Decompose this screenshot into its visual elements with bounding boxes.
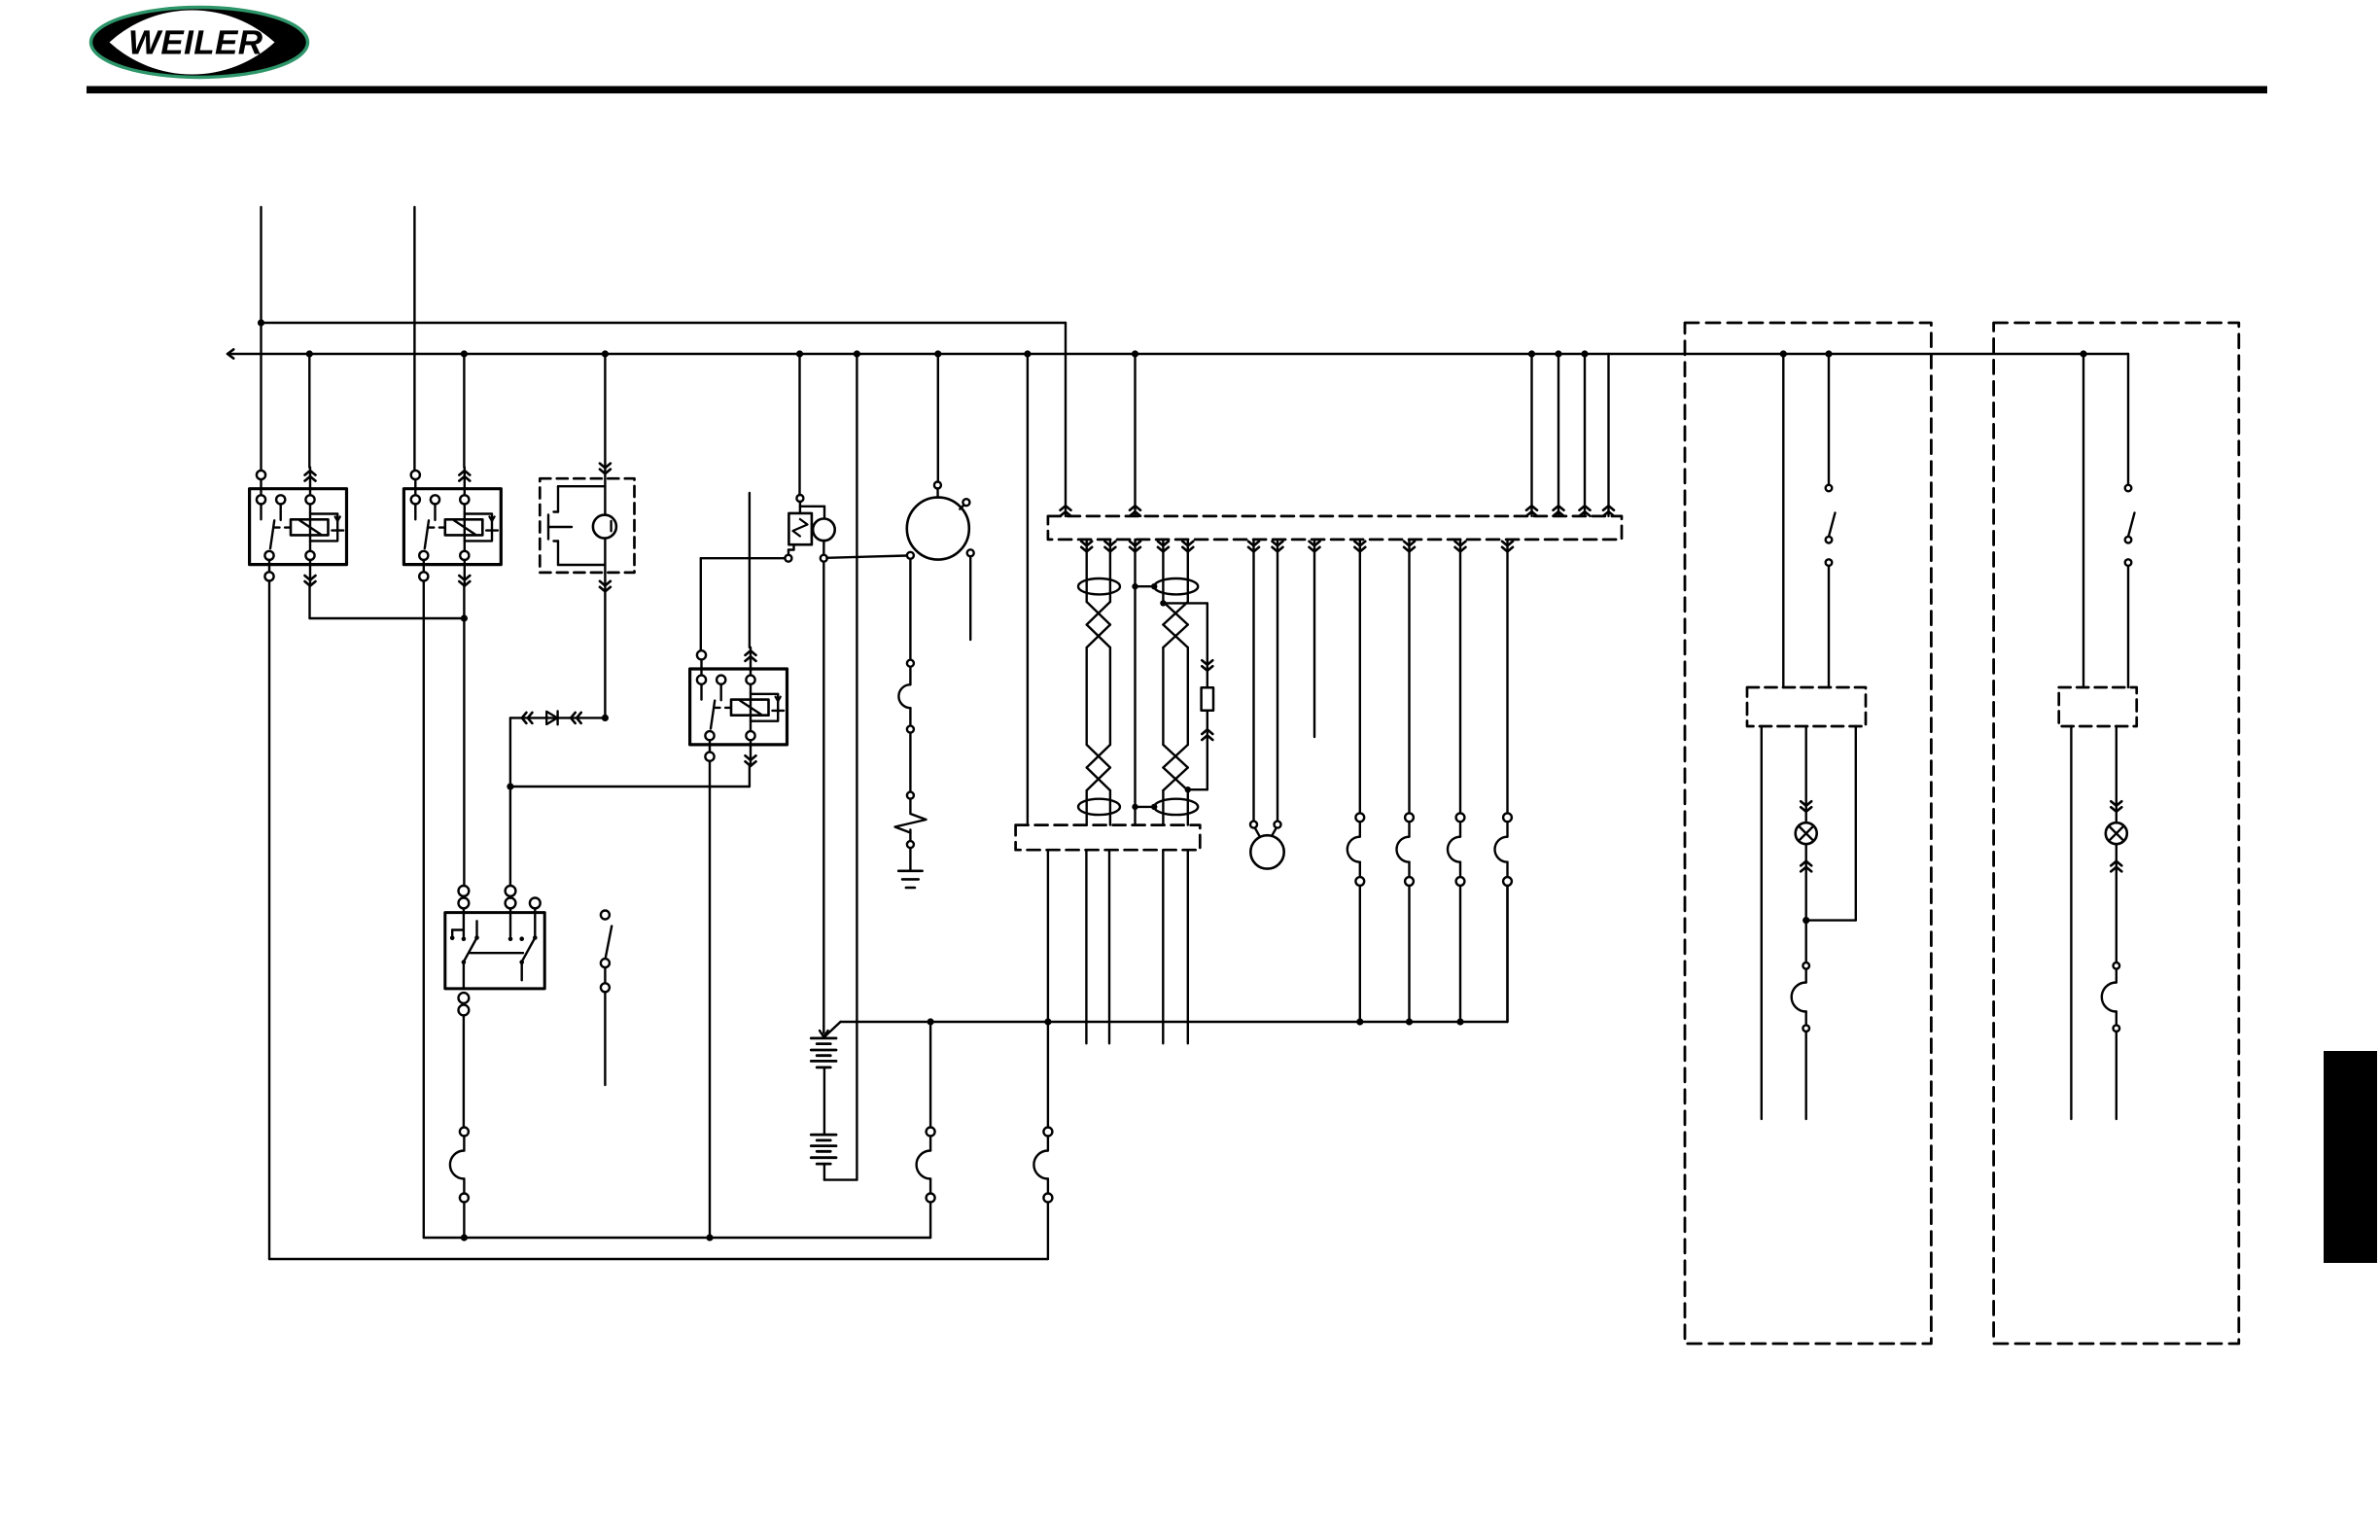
cab unit box 1 (dashed) bbox=[1685, 323, 1931, 1344]
spare wire bbox=[1310, 540, 1320, 737]
wire bus B to indicator unit bbox=[600, 354, 611, 478]
wire bus B to relay K1 coil bbox=[308, 354, 310, 468]
fuse F1 bbox=[1347, 813, 1364, 1022]
relay K2 bbox=[403, 468, 501, 586]
fuse F8 bbox=[898, 660, 913, 733]
junction diode branch bbox=[507, 783, 513, 789]
fuse F10 bbox=[1033, 850, 1052, 1202]
battery series link bbox=[823, 1067, 825, 1135]
wire relay K3 output bbox=[510, 766, 750, 787]
wire breaker to starter terminal bbox=[826, 556, 907, 558]
junction K1/K2 outputs bbox=[461, 614, 468, 621]
harness wire d bbox=[1182, 540, 1193, 602]
circuit breaker CB1 bbox=[895, 799, 927, 849]
wire relay K1 contact to bottom loop bbox=[268, 581, 270, 1260]
fuse F4 bbox=[1495, 813, 1512, 886]
wire relay K2 output to ignition switch bbox=[463, 586, 465, 886]
header rule bbox=[87, 87, 2267, 94]
bus A wire bbox=[262, 323, 1071, 516]
bus B wire bbox=[227, 349, 2128, 358]
stub wires under X2 bbox=[1086, 850, 1187, 1043]
relay K1 bbox=[250, 468, 347, 586]
screen wire bbox=[1130, 540, 1140, 825]
wire bus B to X1 pin 5 bbox=[1603, 354, 1614, 516]
junction lamp E1 return bbox=[1802, 917, 1809, 924]
wire bus B to X1 pin 2 bbox=[1526, 354, 1537, 516]
horn wire a bbox=[1248, 540, 1259, 822]
wire X4 left bbox=[2070, 726, 2072, 1119]
feed wire to relay K2 bbox=[413, 207, 415, 471]
wire indicator unit to diode node bbox=[600, 573, 611, 718]
battery G2 bbox=[811, 1135, 836, 1164]
starter motor M1 bbox=[907, 482, 974, 560]
wire bus B to X1 pin 3 bbox=[1554, 354, 1564, 516]
fuse F2 bbox=[1397, 813, 1414, 1022]
indicator lamp bbox=[593, 478, 616, 573]
wire F8 to breaker CB1 bbox=[907, 733, 914, 799]
wire bus B to circuit breaker bbox=[798, 354, 800, 495]
ground symbol bbox=[898, 848, 922, 888]
screen link bottom bbox=[1132, 804, 1157, 810]
wire relay K1 output bbox=[310, 586, 465, 618]
wire starter to breaker column bbox=[909, 559, 911, 659]
fuse F3 bbox=[1448, 813, 1464, 1022]
wire X1 to fuse F1 bbox=[1354, 540, 1365, 813]
fuse F7 bbox=[450, 1128, 469, 1203]
wire X3 right bbox=[1806, 726, 1856, 921]
wire bus B to X1 pin 4 bbox=[1580, 354, 1591, 516]
circuit breaker unit bbox=[785, 495, 834, 562]
feed wire to relay K1 bbox=[260, 207, 262, 471]
wire relay K3 contact down bbox=[709, 761, 711, 1238]
junction K3/loop bbox=[706, 1234, 713, 1241]
wire diode to ignition switch bbox=[509, 717, 511, 886]
wire X1 to fuse F2 bbox=[1404, 540, 1415, 813]
lamp E1 bbox=[1796, 726, 1817, 921]
battery wire from bus B bbox=[856, 354, 857, 1180]
cab unit box 2 (dashed) bbox=[1994, 323, 2239, 1344]
twisted pair W2 bbox=[1154, 578, 1198, 825]
junction diode to lamp wire bbox=[602, 715, 609, 721]
switch S3 bbox=[1826, 354, 1836, 687]
junctions on bus C bbox=[927, 1018, 1464, 1025]
relay K3 bbox=[690, 647, 787, 766]
wire bus B to X2 bbox=[1027, 354, 1029, 825]
junctions on bus B bbox=[306, 350, 2087, 357]
wire X3 left bbox=[1761, 726, 1763, 1119]
connector X3 (dashed) bbox=[1747, 687, 1866, 726]
harness wire a bbox=[1081, 540, 1092, 602]
wire ignition switch to fuse F7 bbox=[463, 1015, 465, 1127]
harness wire b bbox=[1104, 540, 1115, 602]
pressure switch contact bbox=[548, 486, 605, 565]
battery G1 bbox=[811, 1038, 836, 1067]
lamp E2 bbox=[2106, 726, 2127, 962]
diode D1 line bbox=[510, 712, 606, 725]
wire starter aux terminal bbox=[969, 556, 971, 640]
junction bus A bbox=[258, 319, 264, 326]
connector X1 (dashed) bbox=[1048, 516, 1622, 540]
wire flasher to relay K3 pin1 bbox=[701, 558, 785, 650]
fuse F6 bbox=[2102, 962, 2119, 1119]
resistor R1 branch bbox=[1160, 600, 1213, 792]
ground link wire bbox=[424, 1237, 930, 1239]
wire breaker to battery positive bbox=[820, 562, 828, 1037]
battery negative wire bbox=[824, 1164, 857, 1180]
indicator unit box (dashed) bbox=[540, 478, 634, 573]
fuse F9 bbox=[917, 1022, 935, 1238]
battery positive diagonal bbox=[824, 1022, 840, 1036]
connector X4 (dashed) bbox=[2059, 687, 2137, 726]
wire bus B to relay K2 coil bbox=[463, 354, 465, 468]
wire bus B to X1 pin bbox=[1130, 354, 1140, 516]
wire relay K2 contact down bbox=[423, 581, 425, 1239]
wire bus B to starter motor bbox=[937, 354, 939, 482]
ignition switch S1 bbox=[445, 886, 544, 1015]
wire fuse F7 down bbox=[463, 1203, 465, 1239]
wire relay K3 coil top bbox=[749, 493, 751, 647]
fuse F5 bbox=[1792, 921, 1809, 1119]
wire bus B to connector X3 bbox=[1782, 354, 1784, 687]
harness wire c bbox=[1158, 540, 1169, 602]
bus C wire bbox=[841, 886, 1508, 1022]
page tab bbox=[2324, 1051, 2377, 1263]
horn H1 bbox=[1250, 822, 1284, 869]
wire X1 to fuse F4 bbox=[1502, 540, 1513, 813]
WEILER logo bbox=[91, 8, 308, 78]
wire bottom loop bbox=[269, 1203, 1048, 1260]
horn wire b bbox=[1273, 540, 1283, 822]
wire bus B to connector X4 bbox=[2082, 354, 2084, 687]
connector X2 (dashed) bbox=[1016, 825, 1201, 851]
twisted pair W1 bbox=[1078, 578, 1120, 825]
junction F7/loop bbox=[461, 1234, 468, 1241]
wire X1 to fuse F3 bbox=[1455, 540, 1466, 813]
screen link top bbox=[1132, 583, 1157, 589]
fuse F4 lower wire bbox=[1506, 886, 1508, 1022]
switch S2 bbox=[601, 911, 612, 1086]
switch S4 bbox=[2125, 354, 2135, 687]
